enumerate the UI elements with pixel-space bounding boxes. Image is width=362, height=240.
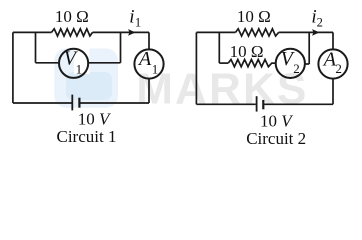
svg-text:1: 1 bbox=[135, 15, 141, 29]
svg-text:Circuit 2: Circuit 2 bbox=[246, 129, 306, 148]
svg-text:10 Ω: 10 Ω bbox=[55, 7, 89, 26]
resistor R3 10 ohm branch bbox=[228, 60, 276, 67]
wire: C1 voltmeter branch left vertical bbox=[35, 32, 37, 62]
battery B1 long plate bbox=[71, 95, 73, 111]
wire: C1 voltmeter branch right horizontal bbox=[89, 62, 121, 64]
watermark logo squircle bbox=[54, 49, 118, 108]
resistor R1 10 ohm bbox=[52, 29, 93, 36]
battery B2 short plate bbox=[262, 100, 264, 109]
svg-text:10 V: 10 V bbox=[260, 111, 294, 130]
svg-text:2: 2 bbox=[293, 61, 300, 76]
svg-text:2: 2 bbox=[317, 15, 323, 29]
svg-text:1: 1 bbox=[76, 61, 83, 76]
voltmeter V2 bbox=[276, 49, 305, 78]
wire: C2 parallel branch right vertical bbox=[308, 32, 310, 64]
wire: C2 parallel branch lead bbox=[219, 62, 228, 64]
wire: C1 bottom left segment bbox=[13, 102, 72, 104]
wire: C2 left side bbox=[195, 32, 197, 104]
svg-text:10 Ω: 10 Ω bbox=[230, 42, 264, 61]
svg-text:10 V: 10 V bbox=[78, 110, 112, 129]
wire: C2 bottom right segment bbox=[264, 103, 333, 105]
svg-text:i: i bbox=[129, 6, 134, 27]
arrow current i2 bbox=[312, 29, 320, 36]
svg-text:10 Ω: 10 Ω bbox=[237, 7, 271, 26]
wire: C1 right side top bbox=[148, 32, 150, 48]
wire: C1 bottom right segment bbox=[80, 102, 149, 104]
arrow current i1 bbox=[128, 29, 136, 36]
wire: C2 top left segment bbox=[196, 31, 235, 33]
wire: C2 parallel branch left vertical bbox=[218, 32, 220, 63]
wire: C1 top right segment bbox=[93, 31, 150, 33]
svg-text:2: 2 bbox=[335, 61, 342, 76]
wire: C1 voltmeter branch left horizontal bbox=[36, 62, 59, 64]
battery B2 long plate bbox=[256, 96, 258, 111]
wire: C1 right side bottom bbox=[148, 79, 150, 103]
wire: C2 bottom left segment bbox=[196, 103, 255, 105]
wire: C2 top right segment bbox=[279, 31, 333, 33]
ammeter A1 bbox=[134, 49, 163, 78]
svg-text:Circuit 1: Circuit 1 bbox=[57, 127, 117, 146]
wire: C1 top left segment bbox=[13, 31, 52, 33]
battery B1 short plate bbox=[78, 98, 80, 108]
voltmeter V1 bbox=[59, 49, 88, 78]
wire: C1 voltmeter branch right vertical bbox=[120, 32, 122, 62]
svg-text:1: 1 bbox=[152, 62, 159, 77]
wire: C2 right side top bbox=[332, 32, 334, 48]
wire: C2 voltmeter right stub bbox=[305, 63, 309, 65]
resistor R2 10 ohm top bbox=[236, 29, 279, 36]
ammeter A2 bbox=[318, 49, 347, 78]
svg-text:A: A bbox=[137, 48, 152, 70]
wire: C1 left side bbox=[12, 32, 14, 103]
wire: C2 right side bottom bbox=[332, 79, 334, 104]
